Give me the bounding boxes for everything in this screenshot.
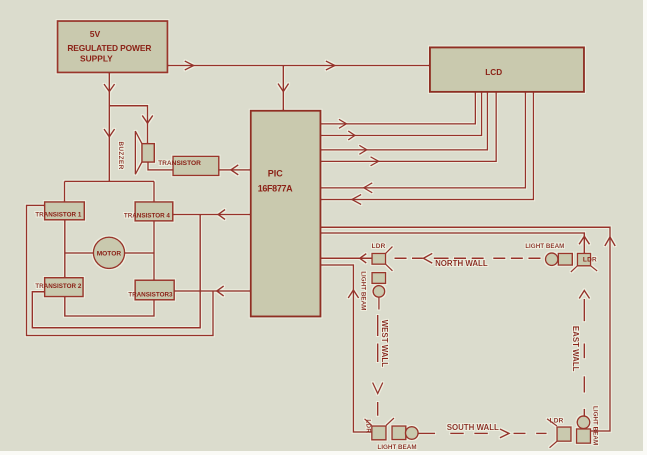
LDR R3 southwest: [365, 418, 395, 440]
svg-text:BUZZER: BUZZER: [117, 141, 124, 169]
wire PIC to NE LDR: [321, 233, 590, 253]
wire PIC to LCD D1: [321, 92, 476, 128]
light beam source southwest: [377, 426, 418, 451]
wire PIC to LCD D4: [321, 92, 497, 166]
transistor Q2 box: [35, 278, 83, 297]
wire transistor to PIC: [219, 165, 251, 175]
svg-text:16F877A: 16F877A: [258, 184, 293, 194]
transistor Q1 box: [35, 202, 84, 220]
wire PIC to SW LDR: [321, 265, 372, 432]
svg-text:LIGHT BEAM: LIGHT BEAM: [525, 243, 564, 250]
motor block top rail wire: [65, 181, 155, 202]
wire motor right: [125, 252, 154, 254]
svg-text:LIGHT BEAM: LIGHT BEAM: [359, 271, 366, 310]
svg-text:MOTOR: MOTOR: [97, 250, 122, 257]
svg-text:LIGHT BEAM: LIGHT BEAM: [591, 406, 598, 445]
wire junction to buzzer: [109, 106, 153, 144]
LDR R1 northwest: [372, 243, 393, 271]
svg-text:PIC: PIC: [268, 169, 284, 179]
wire Q4 to Q3 vertical: [153, 221, 155, 280]
buzzer LS1: [117, 131, 154, 174]
svg-text:TRANSISTOR 4: TRANSISTOR 4: [124, 212, 171, 219]
power supply U1 box: [58, 21, 168, 73]
svg-text:SOUTH WALL: SOUTH WALL: [447, 423, 499, 432]
wire Q1 loop to Q3 line: [27, 205, 214, 335]
motor M1: [93, 237, 124, 268]
svg-text:LDR: LDR: [583, 257, 597, 264]
transistor Q4 box: [124, 202, 173, 221]
LDR R2 northeast: [571, 253, 597, 272]
wire PIC to LCD D3: [321, 92, 488, 154]
wire power supply to LCD: [168, 61, 430, 70]
north wall dashed line: [395, 253, 541, 263]
wire Q2 loop to Q4 line: [32, 215, 200, 328]
svg-text:LDR: LDR: [550, 418, 564, 425]
west wall dashed line: [373, 315, 383, 416]
wire junction down to PIC: [278, 66, 289, 111]
light beam source northeast: [525, 243, 572, 265]
east wall dashed line: [579, 291, 589, 416]
wire Q4 to PIC: [173, 210, 251, 220]
wire Q3 to PIC: [174, 286, 251, 296]
transistor Q3 box: [128, 280, 174, 300]
wire PIC to SE corner: [321, 227, 616, 431]
svg-text:LCD: LCD: [485, 68, 502, 77]
LCD box: [430, 47, 584, 92]
svg-text:REGULATED POWER: REGULATED POWER: [67, 43, 151, 53]
wire to motor left: [65, 252, 94, 254]
light beam source southeast: [577, 406, 599, 445]
wire LCD to PIC EN: [321, 92, 534, 204]
south wall dashed line: [418, 429, 546, 438]
svg-text:TRANSISTOR3: TRANSISTOR3: [128, 291, 173, 298]
svg-text:TRANSISTOR 1: TRANSISTOR 1: [35, 211, 82, 218]
svg-text:LIGHT BEAM: LIGHT BEAM: [377, 444, 416, 451]
wire PIC to LCD D2: [321, 92, 482, 140]
light beam source northwest: [359, 271, 385, 310]
wire LCD to PIC RS: [321, 92, 526, 193]
svg-text:LDR: LDR: [372, 243, 386, 250]
svg-text:NORTH WALL: NORTH WALL: [435, 259, 488, 268]
PIC U2 box: [251, 111, 321, 317]
wire PIC to NW LDR: [321, 254, 373, 263]
svg-text:TRANSISTOR 2: TRANSISTOR 2: [35, 283, 82, 290]
wire buzzer to transistor: [148, 162, 173, 170]
wire Q2 Q3 bottom U: [65, 297, 154, 316]
transistor driver box: [158, 156, 219, 175]
LDR R4 southeast: [547, 418, 571, 448]
svg-text:TRANSISTOR: TRANSISTOR: [158, 160, 201, 167]
wire Q1 to Q2 vertical: [64, 220, 66, 278]
wire power supply down: [104, 73, 115, 182]
svg-text:5V: 5V: [90, 29, 101, 39]
svg-text:SUPPLY: SUPPLY: [80, 53, 113, 63]
svg-text:EAST WALL: EAST WALL: [571, 326, 580, 372]
svg-text:WEST WALL: WEST WALL: [380, 320, 389, 368]
